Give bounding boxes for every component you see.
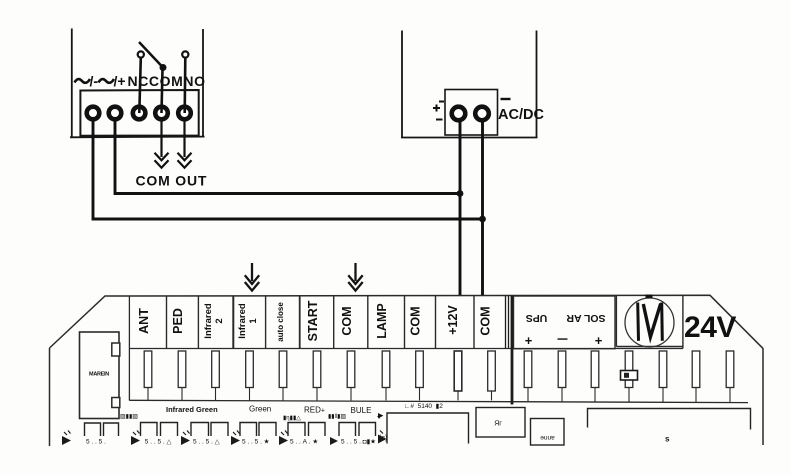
svg-text:5 . . 5 . △: 5 . . 5 . △ xyxy=(143,439,172,446)
terminal 1 xyxy=(87,107,100,120)
slot fuse xyxy=(621,351,638,402)
terminal ANT xyxy=(137,296,167,400)
chip pair 1 xyxy=(85,423,119,436)
terminal 3 xyxy=(133,107,146,120)
terminal strip frame xyxy=(129,296,748,403)
UPS SOLAR terminal block xyxy=(514,296,616,349)
svg-text:COM: COM xyxy=(409,306,423,335)
terminal COM 2 xyxy=(409,296,436,400)
label ~/- ~/+ NC COM NO xyxy=(75,73,206,89)
svg-text:Infrared Green: Infrared Green xyxy=(166,405,218,414)
svg-text:+12V: +12V xyxy=(446,305,460,335)
svg-text:Infrared: Infrared xyxy=(237,303,248,339)
svg-text:/+: /+ xyxy=(114,73,126,89)
terminal LAMP xyxy=(375,296,405,400)
svg-text:24V: 24V xyxy=(684,311,736,344)
terminal Infrared 2 xyxy=(203,296,233,400)
wire W2 terminal1 to junction J2 xyxy=(93,121,483,220)
SOLAR terminal slot + xyxy=(591,351,599,402)
svg-text:anne: anne xyxy=(540,434,555,441)
logo circle W xyxy=(625,296,674,347)
terminal +12V xyxy=(446,296,474,400)
svg-text:5 . . 5 . △: 5 . . 5 . △ xyxy=(193,439,221,446)
svg-text:+: + xyxy=(595,333,603,348)
junction J2 xyxy=(479,216,486,223)
wire NO pin to terminal 5 xyxy=(183,58,186,113)
svg-text:▮η▮▮△: ▮η▮▮△ xyxy=(283,416,301,422)
arrow COM output pin5 xyxy=(178,122,192,168)
svg-text:SOL AR: SOL AR xyxy=(566,312,606,324)
terminal 5 xyxy=(178,107,191,120)
control board outline xyxy=(50,295,764,446)
label + - marks xyxy=(433,99,511,120)
led D5 xyxy=(330,437,338,445)
svg-text:UPS: UPS xyxy=(526,312,548,324)
svg-text:5 . . 5 . ★: 5 . . 5 . ★ xyxy=(242,438,270,446)
svg-text:/-: /- xyxy=(90,73,99,89)
relay R1 xyxy=(476,408,525,438)
svg-text:－: － xyxy=(556,332,569,347)
led D3 xyxy=(181,431,190,446)
terminal PED xyxy=(171,296,198,400)
relay lever xyxy=(139,42,163,68)
chip pair 6 xyxy=(339,423,376,437)
slot 18 xyxy=(692,351,700,402)
svg-text:MAREIN: MAREIN xyxy=(89,372,109,378)
svg-text:COM: COM xyxy=(340,306,354,335)
svg-text:START: START xyxy=(306,300,320,341)
svg-text:ANT: ANT xyxy=(137,308,151,334)
terminal block TB1 xyxy=(80,90,198,136)
slot 19 xyxy=(726,351,734,403)
svg-text:∟# 5140 ▮2: ∟# 5140 ▮2 xyxy=(404,403,443,410)
led D4b xyxy=(279,431,288,446)
svg-text:RED+: RED+ xyxy=(304,406,325,415)
arrow to COM input xyxy=(348,263,362,291)
terminal START xyxy=(306,296,334,400)
section divider xyxy=(506,296,513,405)
svg-text:+: + xyxy=(525,333,533,348)
relay contact NC pin xyxy=(138,51,144,57)
arrow to Infrared 1 input xyxy=(245,263,259,291)
terminal COM 3 xyxy=(479,306,496,400)
svg-text:Green: Green xyxy=(249,405,271,414)
chip pair 3 xyxy=(191,423,228,437)
UPS terminal slot - xyxy=(558,351,566,402)
svg-text:BULE: BULE xyxy=(351,406,372,415)
chip pair 4 xyxy=(240,423,276,437)
wire NC pin to terminal 3 xyxy=(139,58,141,113)
chip pair 2 xyxy=(141,423,178,437)
led D2 xyxy=(131,431,140,446)
svg-text:5 . . 5 .: 5 . . 5 . xyxy=(86,439,106,446)
battery bracket xyxy=(588,409,751,430)
relay bracket K1 xyxy=(387,413,469,444)
wire W3 plus terminal to +12V input xyxy=(459,122,462,297)
svg-text:▮▮‖▮▨: ▮▮‖▮▨ xyxy=(328,414,346,420)
connector J2 housing xyxy=(80,332,120,419)
terminal + xyxy=(452,107,466,121)
svg-text:Infrared: Infrared xyxy=(203,303,214,339)
AC/DC connector xyxy=(445,90,498,136)
junction J1 xyxy=(457,190,464,197)
chip pair 5 xyxy=(288,423,325,437)
terminal - xyxy=(475,107,489,121)
terminal 4 xyxy=(155,107,168,120)
led D6 xyxy=(378,431,387,444)
svg-text:ѕ: ѕ xyxy=(665,435,670,444)
slot 17 xyxy=(659,351,667,402)
terminal auto close xyxy=(276,296,300,400)
svg-text:▨▮▮▨: ▨▮▮▨ xyxy=(120,414,138,420)
arrow COM output pin4 xyxy=(155,122,169,168)
wire W1 terminal2 to junction J1 xyxy=(115,121,460,194)
buzzer B1 xyxy=(531,419,565,446)
wire W4 minus terminal to COM input xyxy=(481,122,484,297)
svg-text:(в): (в) xyxy=(379,435,387,442)
svg-text:auto close: auto close xyxy=(276,302,285,342)
logo cell xyxy=(616,296,683,349)
svg-text:5 . . 5 . ◘▮★: 5 . . 5 . ◘▮★ xyxy=(341,438,376,446)
led D4 xyxy=(231,431,240,446)
component row: led D1 xyxy=(62,431,71,446)
svg-text:AC/DC: AC/DC xyxy=(498,107,544,123)
svg-text:Яг: Яг xyxy=(494,421,502,428)
relay pivot dot xyxy=(160,64,167,71)
terminal 2 xyxy=(109,107,122,120)
relay contact NO pin xyxy=(182,51,188,57)
svg-text:5 . . A . ★: 5 . . A . ★ xyxy=(290,438,318,446)
svg-text:1: 1 xyxy=(248,318,259,324)
receiver box U1 xyxy=(70,29,205,138)
power supply box U2 xyxy=(401,31,538,138)
svg-text:COM: COM xyxy=(479,306,493,335)
svg-text:COM OUT: COM OUT xyxy=(136,173,208,189)
terminal COM xyxy=(340,296,368,400)
wire COM pin to terminal 4 xyxy=(162,69,163,113)
svg-text:PED: PED xyxy=(171,308,185,334)
svg-text:▶: ▶ xyxy=(378,413,384,420)
UPS terminal slot + xyxy=(524,351,532,402)
svg-text:LAMP: LAMP xyxy=(375,303,389,338)
terminal Infrared 1 xyxy=(237,296,266,400)
svg-text:2: 2 xyxy=(214,318,225,323)
